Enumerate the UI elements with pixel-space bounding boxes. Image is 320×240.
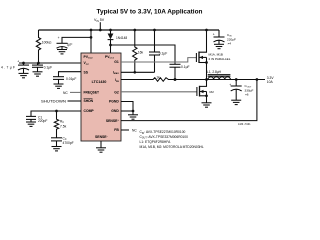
svg-text:SS: SS	[84, 71, 89, 75]
svg-text:×6: ×6	[245, 93, 249, 97]
svg-text:1µF: 1µF	[67, 43, 73, 47]
svg-text:0.01µF: 0.01µF	[66, 77, 76, 81]
svg-text:PGND: PGND	[109, 100, 119, 104]
svg-text:0.1µF: 0.1µF	[181, 65, 190, 69]
svg-text:NC: NC	[132, 128, 137, 132]
svg-text:16k: 16k	[138, 50, 144, 54]
wire SENSE+ line	[121, 80, 257, 121]
wire VCC line	[19, 62, 81, 64]
svg-text:Typical 5V to 3.3V, 10A Applic: Typical 5V to 3.3V, 10A Application	[97, 8, 203, 15]
ground SENSE- pin	[96, 141, 106, 152]
capacitor CC 4700pF	[51, 136, 74, 151]
capacitor 0.1uF (VCC bypass)	[32, 63, 52, 76]
resistor 100k	[36, 30, 40, 63]
wire PGND/GND stubs and ground	[121, 102, 138, 120]
wire G1 gate line	[121, 58, 196, 62]
svg-text:0.1µF: 0.1µF	[159, 51, 168, 55]
wire VIN rail	[39, 29, 220, 31]
svg-text:10A: 10A	[267, 80, 274, 84]
svg-text:×4: ×4	[228, 42, 232, 46]
svg-text:L1, 2.8µH: L1, 2.8µH	[207, 70, 222, 74]
inductor L1	[207, 70, 230, 80]
wire G2 gate line	[121, 91, 197, 93]
svg-text:4.7µF: 4.7µF	[1, 65, 15, 69]
node NC (FB)	[121, 129, 129, 131]
node VCC junction dots	[37, 62, 40, 65]
svg-text:G2: G2	[114, 91, 119, 95]
svg-text:1N4148: 1N4148	[116, 36, 127, 40]
svg-text:SHDN: SHDN	[84, 99, 94, 103]
capacitor CSS 0.01uF	[53, 72, 81, 89]
svg-text:M1A, M1B, M2: MOTOROLA MTD20N0: M1A, M1B, M2: MOTOROLA MTD20N03HL	[140, 145, 204, 149]
svg-text:SENSE−: SENSE−	[95, 135, 109, 139]
svg-text:L1: ETQP6F2R8HFA: L1: ETQP6F2R8HFA	[140, 140, 172, 144]
svg-text:+: +	[17, 60, 19, 64]
svg-text:M2: M2	[210, 90, 215, 94]
transistor M1A/M1B	[196, 29, 230, 80]
wire COMP line	[31, 111, 81, 116]
svg-text:FREQSET: FREQSET	[84, 91, 100, 95]
wire VIN stub	[99, 22, 101, 30]
svg-text:7.5k: 7.5k	[60, 124, 67, 128]
wire IMAX line	[121, 71, 155, 73]
node NC (FREQSET)	[70, 91, 81, 93]
node SHUTDOWN	[68, 100, 82, 102]
svg-text:NC: NC	[63, 91, 68, 95]
svg-text:GND: GND	[111, 109, 119, 113]
svg-text:LTC1430: LTC1430	[92, 80, 107, 84]
capacitor CIN 220uF x4	[213, 30, 236, 49]
resistor RC 7.5k	[54, 111, 58, 138]
notes text block	[140, 130, 204, 149]
capacitor 1uF	[57, 36, 93, 54]
svg-text:1430 • TA01: 1430 • TA01	[238, 123, 251, 126]
svg-text:COUT: AVX-TPSE337M006R0100: COUT: AVX-TPSE337M006R0100	[140, 135, 189, 140]
svg-text:SHUTDOWN: SHUTDOWN	[41, 100, 67, 104]
svg-text:+: +	[213, 33, 215, 37]
IC pin labels left	[84, 55, 120, 139]
svg-text:M1A, M1B: M1A, M1B	[209, 53, 223, 57]
svg-text:1k: 1k	[156, 75, 160, 79]
svg-text:100kΩ: 100kΩ	[42, 41, 52, 45]
svg-text:FB: FB	[114, 128, 119, 132]
svg-text:4700pF: 4700pF	[63, 141, 74, 145]
svg-text:2 IN PARALLEL: 2 IN PARALLEL	[209, 57, 231, 61]
svg-text:+: +	[58, 36, 60, 40]
transistor M2	[197, 80, 214, 108]
svg-text:SENSE+: SENSE+	[106, 119, 120, 123]
capacitor 4.7uF	[1, 60, 29, 78]
svg-text:VIN 5V: VIN 5V	[94, 18, 105, 23]
capacitor COUT 330uF x6	[229, 78, 253, 104]
capacitor 0.1uF (bootstrap)	[170, 64, 190, 81]
svg-text:220pF: 220pF	[38, 119, 47, 123]
capacitor C1 220pF	[26, 115, 47, 126]
wire PVCC2 drop	[90, 30, 92, 53]
wire IFB / switch node line with resistor 1k	[121, 78, 265, 82]
capacitor 0.1uF (IMAX filter)	[149, 29, 167, 73]
IC U1 LTC1430 body	[81, 53, 121, 141]
wire boost node line	[111, 45, 176, 64]
svg-text:0.1µF: 0.1µF	[44, 65, 53, 69]
svg-text:G1: G1	[114, 60, 119, 64]
resistor 16k	[133, 30, 137, 72]
diode 1N4148	[108, 29, 128, 53]
svg-text:COMP: COMP	[84, 109, 95, 113]
